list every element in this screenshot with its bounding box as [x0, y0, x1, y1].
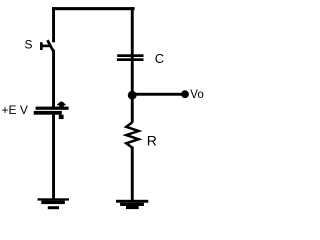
ground left middle bar	[41, 201, 65, 205]
battery E lower tab	[59, 115, 64, 119]
ground right bottom bar	[126, 206, 139, 209]
capacitor C top plate	[117, 54, 143, 57]
wire output (node to Vo terminal)	[132, 93, 183, 96]
resistor R zigzag	[126, 122, 138, 147]
ground right middle bar	[120, 203, 144, 206]
wire left branch upper (rail to switch)	[52, 7, 55, 42]
capacitor C bottom plate	[117, 58, 144, 61]
ground left top bar	[38, 198, 70, 200]
wire left branch lower (battery to ground)	[52, 115, 55, 200]
ground left bottom bar	[48, 206, 59, 209]
switch S pole bar	[40, 45, 51, 48]
battery E top plate	[36, 107, 69, 110]
svg-text:Vo: Vo	[190, 89, 203, 101]
node junction dot	[128, 91, 137, 100]
svg-text:S: S	[25, 38, 33, 52]
wire right branch upper (rail through capacitor to resistor)	[131, 7, 134, 123]
switch S blade	[47, 40, 53, 52]
battery E polarity arrow marker	[57, 102, 66, 107]
terminal dot Vo	[181, 90, 189, 98]
svg-text:C: C	[155, 51, 164, 66]
battery E bottom plate	[34, 111, 62, 115]
svg-text:R: R	[147, 132, 157, 148]
wire left branch middle (switch to battery)	[52, 50, 55, 108]
switch S contact tick	[40, 42, 43, 50]
svg-text:+E V: +E V	[2, 103, 28, 117]
ground right top bar	[116, 200, 148, 203]
wire right branch lower (resistor to ground)	[131, 147, 134, 201]
wire top rail	[52, 7, 135, 10]
